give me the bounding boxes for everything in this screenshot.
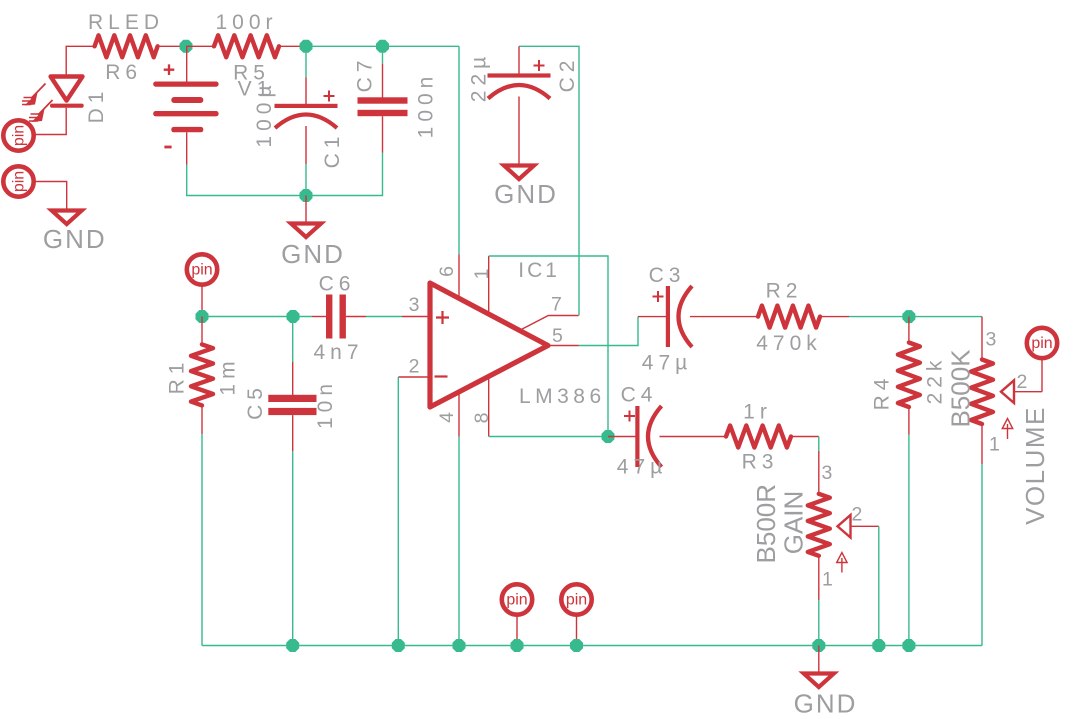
- resistor R4 bottom lead: [908, 407, 910, 435]
- wire D1 cathode to pin: [35, 108, 66, 135]
- wire V+ junction segment: [306, 45, 459, 47]
- LED arrow 2: [38, 100, 53, 115]
- svg-text:1m: 1m: [217, 356, 240, 395]
- svg-text:C7: C7: [354, 56, 377, 93]
- C2 plus sign: [534, 60, 545, 71]
- svg-text:5: 5: [552, 325, 563, 347]
- pin circle P2: [3, 166, 33, 196]
- junction rail pin B: [570, 639, 583, 652]
- wire battery minus to ground rail: [187, 165, 306, 196]
- svg-text:4: 4: [436, 412, 458, 423]
- svg-text:pin: pin: [11, 171, 28, 192]
- resistor R4 top lead: [908, 317, 910, 343]
- junction V+ at battery top: [180, 40, 193, 53]
- svg-text:B500K: B500K: [945, 349, 975, 428]
- op-amp minus marking: [435, 375, 448, 377]
- junction rail pin2 net: [392, 639, 405, 652]
- capacitor C7 bottom lead: [382, 116, 384, 152]
- battery bottom lead: [186, 132, 188, 164]
- capacitor C6 right lead: [346, 316, 366, 318]
- capacitor C5 bottom lead: [292, 415, 294, 451]
- diode D1 (LED): [51, 77, 83, 101]
- wire GAIN wiper down to rail: [878, 526, 880, 645]
- svg-text:pin: pin: [506, 592, 527, 609]
- resistor R2: [758, 306, 820, 328]
- svg-text:7: 7: [551, 294, 562, 316]
- svg-text:2: 2: [1017, 371, 1028, 393]
- battery V1: [153, 82, 218, 87]
- junction above R4: [902, 310, 915, 323]
- opamp pin 3 stub: [402, 316, 430, 318]
- wire pin 8 to C4 node: [489, 436, 608, 438]
- svg-text:GND: GND: [494, 179, 558, 209]
- C3 plus sign: [653, 291, 664, 302]
- battery V1 top lead: [186, 46, 188, 81]
- wire C1 bottom to gnd node: [305, 164, 307, 196]
- svg-text:47µ: 47µ: [642, 352, 692, 375]
- capacitor C2 bottom lead: [518, 97, 520, 166]
- ground stub under battery node: [305, 196, 307, 224]
- capacitor C3: [666, 286, 670, 347]
- C1 plus sign: [324, 91, 335, 102]
- junction rail pin A: [511, 639, 524, 652]
- ground stub bottom: [818, 646, 820, 674]
- junction rail R4: [902, 639, 915, 652]
- svg-text:pin: pin: [566, 592, 587, 609]
- resistor R6 RLED: [95, 35, 158, 57]
- capacitor C4: [635, 406, 639, 467]
- svg-text:D1: D1: [85, 87, 108, 124]
- svg-text:C1: C1: [321, 132, 344, 169]
- wire C4 to R3: [660, 436, 727, 438]
- opamp pin 5 stub: [548, 345, 579, 347]
- svg-text:22µ: 22µ: [468, 52, 491, 102]
- input pin lead: [201, 285, 203, 317]
- svg-text:2: 2: [409, 356, 420, 378]
- svg-text:100n: 100n: [415, 72, 438, 139]
- capacitor C1 top lead: [305, 78, 307, 105]
- svg-text:3: 3: [986, 329, 997, 351]
- resistor R5: [214, 35, 279, 57]
- pin circle bottom A: [502, 584, 532, 614]
- wire C2 top to pin7 net: [519, 46, 579, 315]
- svg-text:RLED: RLED: [88, 11, 164, 34]
- pin circle bottom B: [561, 584, 591, 614]
- junction at input node: [196, 310, 209, 323]
- svg-text:4n7: 4n7: [313, 341, 363, 364]
- capacitor C7 top lead: [382, 64, 384, 98]
- junction rail pin4 net: [453, 639, 466, 652]
- svg-text:pin: pin: [11, 125, 28, 146]
- ground rail wire: [202, 645, 982, 647]
- VOLUME wiper arrow: [1001, 380, 1014, 403]
- ground symbol near D1: [52, 211, 82, 225]
- battery minus sign: [164, 146, 171, 149]
- capacitor C4 left lead: [608, 436, 636, 438]
- svg-text:470k: 470k: [756, 332, 822, 355]
- opamp pin 2 stub: [398, 376, 430, 378]
- bottom pin B lead: [576, 615, 578, 646]
- svg-text:GND: GND: [281, 239, 345, 269]
- bottom pin A lead: [516, 615, 518, 646]
- svg-text:pin: pin: [191, 262, 212, 279]
- junction at C5/C6 node: [287, 310, 300, 323]
- wire RLED to junction: [158, 45, 186, 47]
- op-amp plus marking: [436, 311, 449, 324]
- opamp pin 6 stub: [458, 255, 460, 300]
- svg-text:GAIN: GAIN: [778, 491, 808, 555]
- capacitor C7: [358, 97, 408, 103]
- pin circle input: [187, 254, 217, 284]
- wire V+ rail down to pin 6: [458, 46, 460, 254]
- svg-text:R6: R6: [105, 61, 142, 84]
- wire input node to C6: [202, 316, 312, 318]
- wire GAIN to bottom rail: [818, 600, 820, 646]
- svg-text:pin: pin: [1031, 335, 1052, 352]
- opamp pin 8 stub: [488, 377, 490, 437]
- pin circle VOLUME out: [1027, 328, 1057, 358]
- svg-text:1: 1: [822, 569, 833, 591]
- capacitor C1: [275, 104, 338, 108]
- capacitor C3 left lead: [638, 316, 666, 318]
- junction above C1: [300, 40, 313, 53]
- junction at battery ground node: [300, 189, 313, 202]
- capacitor C2 top lead: [518, 46, 520, 73]
- svg-text:LM386: LM386: [519, 385, 606, 408]
- VOLUME adjust arrow: [1007, 424, 1009, 439]
- wire net from D1 anode to RLED: [66, 46, 94, 76]
- svg-text:10n: 10n: [314, 379, 337, 429]
- svg-text:6: 6: [436, 266, 458, 277]
- svg-text:C5: C5: [244, 383, 267, 420]
- wire R5 to junction: [279, 45, 306, 47]
- potentiometer GAIN bottom lead: [818, 556, 820, 600]
- potentiometer GAIN top lead: [818, 451, 820, 494]
- GAIN wiper arrow: [838, 515, 851, 538]
- resistor R3: [726, 426, 791, 448]
- svg-text:3: 3: [822, 462, 833, 484]
- svg-text:1r: 1r: [743, 401, 772, 424]
- svg-text:100r: 100r: [215, 11, 277, 34]
- svg-text:R1: R1: [166, 358, 189, 395]
- wire output to C3: [579, 317, 639, 346]
- capacitor C5 top lead: [292, 362, 294, 395]
- wire junction to R5: [186, 45, 214, 47]
- capacitor C2: [488, 73, 551, 77]
- junction rail wiper: [872, 639, 885, 652]
- capacitor C6 left lead: [312, 316, 326, 318]
- resistor R1 top lead: [201, 317, 203, 345]
- pin circle P1: [3, 120, 33, 150]
- wire junction to C1: [305, 46, 307, 77]
- svg-text:R2: R2: [766, 280, 803, 303]
- opamp pin 7 stub: [520, 316, 579, 331]
- svg-text:47µ: 47µ: [617, 456, 667, 479]
- svg-text:B500R: B500R: [751, 484, 781, 564]
- wire R3 to corner: [791, 436, 819, 438]
- svg-text:1: 1: [989, 434, 1000, 456]
- opamp pin 1 stub: [488, 256, 490, 315]
- wire R2 junction segment: [849, 316, 982, 318]
- junction above C7: [376, 40, 389, 53]
- svg-text:22k: 22k: [924, 356, 947, 405]
- junction rail C5: [286, 639, 299, 652]
- svg-text:GND: GND: [43, 224, 107, 254]
- svg-text:GND: GND: [794, 688, 858, 718]
- svg-text:C3: C3: [649, 264, 686, 287]
- svg-text:100µ: 100µ: [253, 80, 276, 147]
- svg-text:2: 2: [852, 504, 863, 526]
- junction at C4 node: [602, 430, 615, 443]
- wire C5 node down: [292, 317, 294, 363]
- potentiometer GAIN B500R: [808, 494, 830, 556]
- svg-text:VOLUME: VOLUME: [1020, 406, 1050, 525]
- wire pin 4 down to rail: [458, 437, 460, 646]
- svg-text:C4: C4: [621, 384, 658, 407]
- wire C5 to bottom rail: [292, 451, 294, 646]
- wire R1 to bottom rail: [201, 434, 203, 646]
- wire pin 2 down to rail: [397, 377, 399, 646]
- resistor R4: [898, 343, 920, 408]
- C4 plus sign: [624, 411, 635, 422]
- wire VOLUME to bottom rail: [981, 464, 983, 646]
- svg-text:R4: R4: [871, 374, 894, 411]
- battery plus sign: [164, 64, 175, 75]
- wire pin 1 net over top: [489, 256, 608, 437]
- ground symbol bottom: [804, 674, 834, 688]
- wire VOLUME wiper up to pin: [1041, 358, 1043, 392]
- wire C3 to R2: [690, 316, 758, 318]
- opamp pin 4 stub: [458, 392, 460, 437]
- ground symbol under C2: [504, 166, 534, 180]
- wire gnd node to C7 bottom: [306, 153, 383, 196]
- capacitor C6: [326, 295, 332, 339]
- svg-text:1: 1: [471, 269, 493, 280]
- svg-text:R3: R3: [742, 451, 779, 474]
- potentiometer VOLUME B500K: [971, 360, 993, 425]
- LED arrow 1: [31, 84, 46, 99]
- ground symbol under battery: [291, 224, 321, 238]
- potentiometer VOLUME bottom lead: [981, 424, 983, 464]
- resistor R1: [191, 344, 213, 405]
- svg-text:3: 3: [409, 294, 420, 316]
- svg-text:C2: C2: [556, 56, 579, 93]
- op-amp U1 triangle: [430, 283, 548, 407]
- potentiometer VOLUME top lead: [981, 317, 983, 360]
- GAIN adjust arrow: [841, 558, 843, 573]
- wire corner down to GAIN: [818, 437, 820, 452]
- wire C6 to opamp pin 3: [366, 316, 402, 318]
- wire junction to C7: [382, 46, 384, 63]
- capacitor C1 bottom lead: [305, 126, 307, 164]
- svg-text:8: 8: [471, 413, 493, 424]
- wire R2 to junction: [820, 316, 849, 318]
- capacitor C5: [268, 395, 316, 402]
- wire pin P2 to GND: [35, 182, 67, 211]
- junction rail GAIN: [812, 639, 825, 652]
- svg-text:IC1: IC1: [518, 259, 560, 282]
- resistor R1 bottom lead: [201, 405, 203, 434]
- wire R4 to bottom rail: [908, 435, 910, 646]
- svg-text:C6: C6: [319, 273, 356, 296]
